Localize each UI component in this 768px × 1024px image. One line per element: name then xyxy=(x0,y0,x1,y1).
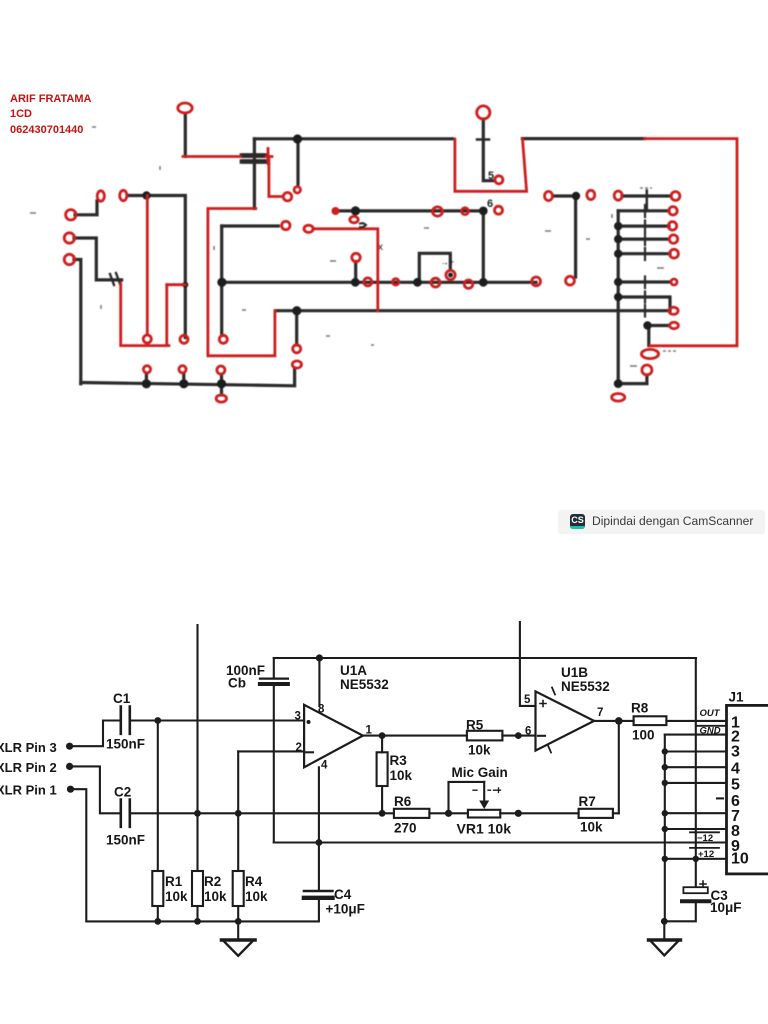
svg-text:R4: R4 xyxy=(245,874,263,889)
svg-text:3: 3 xyxy=(295,711,301,723)
svg-text:10k: 10k xyxy=(468,743,491,758)
svg-text:OUT: OUT xyxy=(700,708,721,719)
svg-text:R3: R3 xyxy=(390,753,408,768)
svg-text:Mic Gain: Mic Gain xyxy=(452,765,508,780)
svg-text:5: 5 xyxy=(524,694,531,706)
svg-text:7: 7 xyxy=(597,707,603,719)
svg-text:−12: −12 xyxy=(697,833,713,844)
svg-text:→+: →+ xyxy=(440,257,454,267)
svg-text:C1: C1 xyxy=(113,691,131,706)
svg-text:NE5532: NE5532 xyxy=(340,677,389,692)
svg-text:150nF: 150nF xyxy=(106,833,145,848)
svg-text:10k: 10k xyxy=(204,889,227,904)
svg-text:4: 4 xyxy=(731,761,740,778)
svg-text:R1: R1 xyxy=(165,874,183,889)
svg-text:5: 5 xyxy=(731,777,740,794)
svg-text:3: 3 xyxy=(731,744,740,761)
svg-text:GND: GND xyxy=(700,726,721,737)
svg-text:J1: J1 xyxy=(729,690,745,705)
svg-text:10k: 10k xyxy=(580,820,603,835)
svg-text:2: 2 xyxy=(296,742,302,754)
svg-text:R7: R7 xyxy=(579,794,596,809)
svg-text:XLR Pin 3: XLR Pin 3 xyxy=(0,740,57,755)
svg-text:U1B: U1B xyxy=(561,665,588,680)
svg-text:10: 10 xyxy=(731,851,749,868)
svg-text:6: 6 xyxy=(525,726,531,738)
svg-text:4: 4 xyxy=(321,760,328,772)
svg-text:+10μF: +10μF xyxy=(326,902,365,917)
svg-text:Cb: Cb xyxy=(228,676,246,691)
svg-text:1: 1 xyxy=(366,725,373,737)
svg-text:10k: 10k xyxy=(390,768,413,783)
svg-text:270: 270 xyxy=(394,821,417,836)
svg-text:150nF: 150nF xyxy=(106,737,145,752)
svg-text:100: 100 xyxy=(632,728,655,743)
svg-text:10μF: 10μF xyxy=(710,900,742,915)
svg-text:VR1 10k: VR1 10k xyxy=(457,821,512,837)
svg-text:XLR Pin 2: XLR Pin 2 xyxy=(0,760,57,775)
svg-text:R8: R8 xyxy=(631,701,649,716)
svg-text:C2: C2 xyxy=(114,785,131,800)
svg-text:10k: 10k xyxy=(165,889,188,904)
svg-text:8: 8 xyxy=(318,704,325,716)
svg-text:+12: +12 xyxy=(698,849,714,860)
svg-text:XLR Pin 1: XLR Pin 1 xyxy=(0,783,57,798)
svg-text:R2: R2 xyxy=(204,874,221,889)
svg-text:6: 6 xyxy=(487,198,493,210)
svg-text:5: 5 xyxy=(488,170,494,182)
svg-text:10k: 10k xyxy=(245,889,268,904)
svg-text:R6: R6 xyxy=(394,794,412,809)
svg-text:U1A: U1A xyxy=(340,663,367,678)
svg-text:R5: R5 xyxy=(466,718,484,733)
svg-text:NE5532: NE5532 xyxy=(561,679,610,694)
svg-text:C4: C4 xyxy=(334,887,352,902)
